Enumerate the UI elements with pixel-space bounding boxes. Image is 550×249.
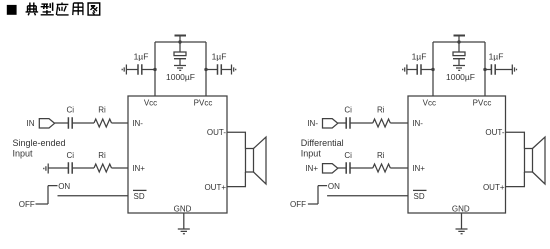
- label OFF (right switch): [290, 200, 306, 209]
- wire OUT- to speaker (right): [506, 132, 525, 148]
- pin label PVcc (right IC): [473, 99, 492, 108]
- label Ri (IN- row right): [377, 106, 385, 115]
- wire tag to Ci (IN- row left): [55, 122, 69, 124]
- label IN+ (right): [305, 164, 318, 173]
- svg-text:IN+: IN+: [132, 164, 145, 173]
- resistor Ri (IN- row right): [373, 119, 391, 127]
- svg-text:1000µF: 1000µF: [446, 72, 475, 82]
- pin label OUT+ (right IC): [483, 183, 505, 192]
- svg-text:Input: Input: [301, 149, 322, 159]
- input tag IN (left): [39, 119, 54, 128]
- svg-text:Vcc: Vcc: [423, 99, 436, 108]
- capacitor Ci (IN- row right): [346, 117, 350, 128]
- label Ri (IN+ row left): [98, 151, 106, 160]
- caption Single-ended Input: [13, 138, 66, 159]
- power V+ symbol (left): [175, 36, 187, 43]
- svg-text:OUT+: OUT+: [483, 183, 505, 192]
- capacitor Ci (IN- row left): [68, 117, 72, 128]
- capacitor C1 1000uF (left): [174, 42, 186, 65]
- pin label PVcc (left IC): [194, 99, 213, 108]
- ground (right IC GND): [456, 229, 468, 234]
- resistor Ri (IN+ row right): [373, 164, 391, 172]
- svg-text:IN+: IN+: [412, 164, 425, 173]
- svg-text:Ci: Ci: [67, 151, 75, 160]
- svg-text:Ri: Ri: [377, 106, 385, 115]
- wire Ci to Ri (IN+ row left): [72, 167, 94, 169]
- wire OUT- to speaker (left): [227, 132, 245, 148]
- svg-text:ON: ON: [328, 182, 340, 191]
- svg-text:PVcc: PVcc: [473, 99, 492, 108]
- svg-text:IN-: IN-: [132, 119, 143, 128]
- capacitor Ci (IN+ row right): [346, 162, 350, 173]
- svg-text:1µF: 1µF: [134, 52, 149, 62]
- capacitor C4 1000uF (right): [453, 42, 465, 65]
- svg-text:Differential: Differential: [301, 138, 344, 148]
- svg-text:1000µF: 1000µF: [166, 72, 195, 82]
- svg-text:1µF: 1µF: [489, 52, 504, 62]
- pin label OUT- (right IC): [485, 128, 504, 137]
- wire GND pin down (right): [461, 213, 463, 229]
- wire switch to SD (right): [327, 195, 408, 197]
- pin label SD with overline (right IC): [413, 190, 427, 201]
- pin label IN- (right IC): [412, 119, 423, 128]
- wire switch to SD (left): [58, 195, 129, 197]
- pin label IN- (left IC): [132, 119, 143, 128]
- svg-text:OUT+: OUT+: [204, 183, 226, 192]
- label ON (left switch): [58, 182, 70, 191]
- svg-text:IN-: IN-: [307, 119, 318, 128]
- wire tag to Ci (IN- row right): [338, 122, 346, 124]
- svg-text:PVcc: PVcc: [194, 99, 213, 108]
- svg-text:Ri: Ri: [98, 106, 106, 115]
- svg-text:OUT-: OUT-: [207, 128, 226, 137]
- pin label OUT- (left IC): [207, 128, 226, 137]
- wire OUT+ to speaker (left): [227, 172, 245, 187]
- svg-text:GND: GND: [452, 205, 470, 214]
- wire PVcc riser (left): [205, 42, 207, 96]
- wire top supply rail (left): [155, 41, 206, 43]
- svg-text:Vcc: Vcc: [144, 99, 157, 108]
- label Ci (IN+ row left): [67, 151, 75, 160]
- label Ri (IN+ row right): [377, 151, 385, 160]
- pin label Vcc (right IC): [423, 99, 436, 108]
- wire Vcc riser (right): [432, 42, 434, 96]
- label ON (right switch): [328, 182, 340, 191]
- svg-text:IN: IN: [27, 119, 35, 128]
- node junction PVcc/1uF (right): [483, 68, 486, 71]
- wire tag to Ci (IN+ row right): [338, 167, 346, 169]
- ground (1000uF left): [174, 66, 186, 71]
- value label 1000uF (right): [446, 72, 475, 82]
- switch SW1 (left): [36, 186, 58, 204]
- svg-text:Ci: Ci: [344, 151, 352, 160]
- pin label Vcc (left IC): [144, 99, 157, 108]
- node junction PVcc/1uF (left): [204, 68, 207, 71]
- node junction rail/cap (left): [178, 40, 181, 43]
- value label 1000uF (left): [166, 72, 195, 82]
- svg-text:Ci: Ci: [344, 106, 352, 115]
- svg-text:Ci: Ci: [67, 106, 75, 115]
- label IN- (right): [307, 119, 318, 128]
- label Ci (IN+ row right): [344, 151, 352, 160]
- wire Ci to Ri (IN- row left): [72, 122, 94, 124]
- svg-text:OUT-: OUT-: [485, 128, 504, 137]
- wire OUT+ to speaker (right): [506, 172, 525, 187]
- wire PVcc riser (right): [484, 42, 486, 96]
- title bullet square: [7, 5, 17, 15]
- svg-text:ON: ON: [58, 182, 70, 191]
- capacitor C6 1uF (right-right): [485, 64, 512, 74]
- ground (IN+ row left, sideways): [44, 164, 48, 174]
- label OFF (left switch): [19, 200, 35, 209]
- input tag IN- (right): [323, 119, 338, 128]
- wire Vcc riser (left): [154, 42, 156, 96]
- wire Ci to Ri (IN- row right): [350, 122, 373, 124]
- capacitor Ci (IN+ row left): [68, 162, 72, 173]
- label Ci (IN- row left): [67, 106, 75, 115]
- pin label SD with overline (left IC): [133, 190, 147, 201]
- svg-text:Ri: Ri: [377, 151, 385, 160]
- node junction Vcc/1uF (left): [153, 68, 156, 71]
- capacitor C5 1uF (right-left): [407, 64, 433, 74]
- op-amp IC U2 (right) body: [408, 96, 506, 213]
- svg-text:GND: GND: [174, 205, 192, 214]
- pin label GND (right IC): [452, 205, 470, 214]
- ground (C5, sideways): [403, 65, 407, 75]
- pin label IN+ (left IC): [132, 164, 145, 173]
- svg-text:1µF: 1µF: [212, 52, 227, 62]
- input tag IN+ (right): [323, 164, 338, 173]
- capacitor C3 1uF (left-right): [206, 64, 231, 74]
- svg-text:OFF: OFF: [290, 200, 306, 209]
- op-amp IC U1 (left) body: [128, 96, 227, 213]
- wire Ri to IN+ pin (right): [390, 167, 408, 169]
- svg-text:OFF: OFF: [19, 200, 35, 209]
- ground (C3, sideways): [232, 65, 236, 75]
- ground (C2, sideways): [122, 65, 126, 75]
- svg-text:Input: Input: [13, 149, 34, 159]
- capacitor C2 1uF (left-left): [127, 64, 156, 74]
- title text 典型应用图: [26, 3, 100, 16]
- wire Ci to Ri (IN+ row right): [350, 167, 373, 169]
- speaker LS2 (right): [525, 137, 546, 184]
- label Ri (IN- row left): [98, 106, 106, 115]
- value label 1uF (left-left): [134, 52, 149, 62]
- svg-text:Single-ended: Single-ended: [13, 138, 66, 148]
- wire Ri to IN- pin (left): [112, 122, 129, 124]
- wire top supply rail (right): [433, 41, 485, 43]
- value label 1uF (right-left): [412, 52, 427, 62]
- node junction rail/cap (right): [457, 40, 460, 43]
- wire Ri to IN- pin (right): [390, 122, 408, 124]
- caption Differential Input: [301, 138, 344, 159]
- svg-text:IN+: IN+: [305, 164, 318, 173]
- label IN (left): [27, 119, 35, 128]
- speaker LS1 (left): [246, 137, 267, 184]
- wire GND pin down (left): [183, 213, 185, 229]
- svg-text:SD: SD: [134, 192, 145, 201]
- pin label IN+ (right IC): [412, 164, 425, 173]
- resistor Ri (IN- row left): [94, 119, 112, 127]
- label Ci (IN- row right): [344, 106, 352, 115]
- ground (left IC GND): [178, 229, 190, 234]
- ground (1000uF right): [453, 66, 465, 71]
- ground (C6, sideways): [512, 65, 516, 75]
- value label 1uF (left-right): [212, 52, 227, 62]
- switch SW2 (right): [308, 186, 327, 204]
- wire Ri to IN+ pin (left): [112, 167, 129, 169]
- wire ground to Ci (IN+ row left): [48, 167, 68, 169]
- resistor Ri (IN+ row left): [94, 164, 112, 172]
- value label 1uF (right-right): [489, 52, 504, 62]
- pin label GND (left IC): [174, 205, 192, 214]
- svg-text:Ri: Ri: [98, 151, 106, 160]
- svg-text:1µF: 1µF: [412, 52, 427, 62]
- node junction Vcc/1uF (right): [431, 68, 434, 71]
- power V+ symbol (right): [454, 36, 466, 43]
- pin label OUT+ (left IC): [204, 183, 226, 192]
- svg-text:SD: SD: [414, 192, 425, 201]
- svg-text:IN-: IN-: [412, 119, 423, 128]
